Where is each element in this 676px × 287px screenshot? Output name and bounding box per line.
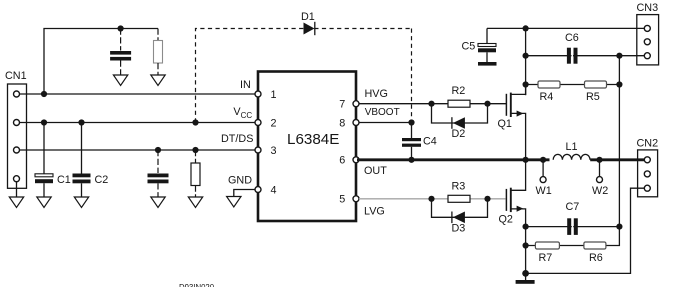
pin 5 LVG (339, 194, 385, 218)
wire IN net: CN1 pin1 to IC pin1 (20, 93, 257, 95)
node junction top rail / bypass cap (118, 25, 124, 31)
ground below DT/DS capacitor (151, 197, 165, 208)
wire CN2 pin3 return (526, 188, 645, 273)
svg-text:R3: R3 (452, 181, 466, 193)
transistor Q1 (498, 85, 526, 160)
svg-text:GND: GND (228, 175, 252, 187)
op-amp U1 IC L6384E (258, 72, 356, 222)
diode D3 (452, 212, 466, 235)
node junction C6 rail / right vertical (616, 53, 622, 59)
node junction Q2 source / bottom return (522, 270, 529, 277)
svg-text:DT/DS: DT/DS (221, 133, 253, 145)
node junction C6 rail / drain vertical (523, 53, 529, 59)
svg-text:CN1: CN1 (5, 70, 27, 82)
svg-text:6: 6 (339, 155, 345, 167)
resistor (optional) below top rail (154, 29, 163, 76)
capacitor (optional) on DT/DS (148, 150, 169, 197)
ground below DT/DS resistor (188, 197, 202, 208)
svg-text:R4: R4 (540, 91, 554, 103)
svg-text:HVG: HVG (365, 88, 388, 100)
resistor R5 (585, 81, 607, 103)
ground below C1 (37, 197, 51, 208)
pin 3 DT/DS (221, 133, 277, 157)
wire right drain vertical (525, 28, 527, 95)
svg-text:5: 5 (339, 194, 345, 206)
wire DT/DS net: CN1 pin3 to IC pin3 (20, 149, 257, 151)
svg-text:C4: C4 (423, 136, 437, 148)
capacitor C6 (565, 32, 579, 64)
svg-text:OUT: OUT (364, 165, 387, 177)
svg-text:VBOOT: VBOOT (365, 107, 400, 118)
svg-text:4: 4 (271, 185, 277, 197)
svg-text:C6: C6 (565, 32, 579, 44)
wire top-right rail (487, 27, 645, 29)
svg-text:R7: R7 (539, 252, 553, 264)
node junction VCC/C1 (41, 119, 47, 125)
wire D2 branch (432, 104, 488, 123)
wire D3 branch (432, 199, 488, 218)
resistor (optional) on DT/DS (191, 150, 200, 197)
terminal W1 (536, 160, 552, 197)
node junction Q1 source / Q2 drain / OUT (523, 157, 529, 163)
wire C7 line (526, 226, 620, 228)
pin 8 VBOOT (339, 107, 399, 129)
pin 2 VCC (233, 106, 276, 129)
svg-text:C1: C1 (57, 174, 71, 186)
wire OUT net (thick) (357, 158, 550, 161)
node junction VCC/D1 leg (192, 119, 198, 125)
svg-text:C2: C2 (95, 174, 109, 186)
connector CN3 (637, 2, 659, 65)
diode D2 (452, 117, 466, 140)
node junction HVG/D2 left (428, 101, 434, 107)
wire CN1 pin4 to ground (16, 182, 18, 197)
svg-text:IN: IN (240, 79, 251, 91)
svg-text:R2: R2 (452, 85, 466, 97)
wire top-left rail (44, 29, 158, 95)
node junction DT-DS/cap (155, 147, 161, 153)
svg-text:7: 7 (339, 98, 345, 110)
capacitor (optional) below top rail (110, 29, 131, 76)
node junction VCC/C2 (78, 119, 84, 125)
ground bar below C5 (478, 62, 497, 66)
capacitor C4 (402, 123, 437, 160)
resistor R6 (584, 242, 606, 264)
node junction Q2 source / C7 (523, 224, 529, 230)
svg-text:CN2: CN2 (637, 138, 659, 150)
node junction C4/OUT (408, 157, 414, 163)
wire OUT net right of L1 (thick) (590, 158, 644, 161)
pin 6 OUT (339, 155, 387, 177)
ground below CN1 (9, 197, 23, 208)
svg-text:C7: C7 (566, 201, 580, 213)
terminal W2 (592, 160, 608, 197)
svg-text:2: 2 (271, 118, 277, 130)
svg-text:LVG: LVG (364, 206, 385, 218)
resistor R4 (538, 81, 560, 103)
inductor L1 (553, 141, 590, 160)
wire VBOOT to C4 (359, 122, 412, 124)
resistor R3 (448, 181, 470, 203)
svg-text:D2: D2 (452, 128, 466, 140)
capacitor C2 (73, 123, 109, 198)
node junction DT-DS/resistor (192, 147, 198, 153)
svg-text:R6: R6 (589, 252, 603, 264)
node junction VBOOT/C4 (408, 119, 414, 125)
wire HVG net (359, 103, 506, 105)
connector CN1 (5, 70, 27, 188)
svg-text:L6384E: L6384E (287, 131, 339, 148)
wire stem to power ground (525, 273, 527, 280)
svg-text:1: 1 (271, 89, 277, 101)
node junction Q2 source / R7 (523, 242, 529, 248)
capacitor C1 (35, 123, 71, 198)
wire LVG net (gray) (359, 198, 506, 200)
svg-text:Q1: Q1 (498, 118, 512, 130)
node junction R5 rail / right vertical (616, 81, 622, 87)
node junction C7 right / vertical (616, 224, 622, 230)
node junction LVG/D3 left (428, 196, 434, 202)
node junction R4 rail / drain vertical (523, 81, 529, 87)
capacitor C7 (566, 201, 580, 235)
wire dashed D1 bootstrap path (196, 29, 412, 123)
wire C6 rail (526, 55, 645, 57)
ground below optional capacitor (113, 75, 127, 86)
wire R7/R6 line (526, 227, 620, 246)
ground below optional resistor (151, 75, 165, 86)
node junction HVG/D2 right (484, 101, 490, 107)
ground below C2 (74, 197, 88, 208)
pin 4 GND (228, 175, 277, 197)
pin 7 HVG (339, 88, 388, 110)
pin 1 IN (240, 79, 277, 101)
diode D1 (301, 11, 315, 35)
node junction OUT/W1 (540, 157, 546, 163)
svg-text:D93IN020: D93IN020 (179, 283, 215, 287)
wire GND pin to ground (234, 190, 256, 197)
resistor R7 (535, 242, 559, 264)
ground power bar (516, 280, 535, 284)
connector CN2 (637, 138, 659, 197)
capacitor C5 (462, 28, 497, 62)
svg-text:3: 3 (271, 145, 277, 157)
svg-text:L1: L1 (566, 141, 578, 153)
svg-text:R5: R5 (586, 91, 600, 103)
resistor R2 (448, 85, 470, 107)
node junction LVG/D3 right (484, 196, 490, 202)
svg-text:Q2: Q2 (499, 214, 513, 226)
wire right vertical (C6 to C7) (618, 56, 620, 227)
svg-text:D1: D1 (301, 11, 315, 23)
node junction OUT/W2 (596, 157, 602, 163)
node junction top rail / drain vertical (523, 25, 529, 31)
svg-text:W2: W2 (592, 185, 608, 197)
wire R4/R5 rail (526, 84, 620, 86)
svg-text:VCC: VCC (233, 106, 252, 120)
ground below IC GND pin (227, 197, 241, 208)
svg-text:8: 8 (339, 117, 345, 129)
svg-text:D3: D3 (452, 223, 466, 235)
svg-text:W1: W1 (536, 185, 552, 197)
svg-text:CN3: CN3 (637, 2, 659, 14)
wire VCC net: CN1 pin2 to IC pin2 (20, 122, 257, 124)
node junction IN/rail (41, 91, 47, 97)
transistor Q2 (499, 160, 526, 274)
svg-text:C5: C5 (462, 41, 476, 53)
